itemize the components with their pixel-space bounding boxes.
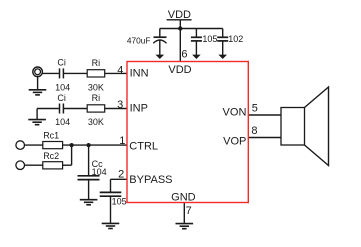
svg-text:2: 2 — [118, 169, 124, 181]
svg-text:INP: INP — [130, 103, 148, 115]
svg-text:VDD: VDD — [168, 64, 191, 76]
svg-text:Ci: Ci — [57, 58, 66, 68]
svg-text:3: 3 — [117, 99, 123, 111]
svg-text:Rc2: Rc2 — [43, 151, 59, 161]
svg-text:Ri: Ri — [92, 58, 101, 68]
svg-text:CTRL: CTRL — [129, 141, 158, 153]
svg-text:105: 105 — [202, 34, 217, 44]
svg-text:4: 4 — [117, 64, 123, 76]
svg-text:GND: GND — [171, 192, 196, 204]
svg-text:VON: VON — [223, 106, 247, 118]
svg-text:8: 8 — [251, 125, 257, 137]
svg-text:5: 5 — [252, 103, 258, 115]
svg-text:VDD: VDD — [168, 9, 191, 21]
svg-text:104: 104 — [55, 82, 70, 92]
svg-text:VOP: VOP — [223, 136, 246, 148]
svg-text:104: 104 — [92, 167, 107, 177]
svg-text:30K: 30K — [88, 117, 104, 127]
svg-text:Rc1: Rc1 — [43, 130, 59, 140]
svg-text:BYPASS: BYPASS — [129, 174, 172, 186]
svg-text:102: 102 — [228, 34, 243, 44]
svg-text:7: 7 — [186, 205, 192, 217]
svg-text:INN: INN — [130, 68, 149, 80]
svg-text:Ri: Ri — [92, 93, 101, 103]
svg-text:470uF: 470uF — [127, 36, 151, 46]
svg-text:1: 1 — [119, 135, 125, 147]
svg-text:30K: 30K — [88, 82, 104, 92]
svg-text:Ci: Ci — [57, 93, 66, 103]
svg-text:105: 105 — [112, 197, 127, 207]
svg-text:104: 104 — [55, 117, 70, 127]
svg-text:6: 6 — [181, 48, 187, 60]
